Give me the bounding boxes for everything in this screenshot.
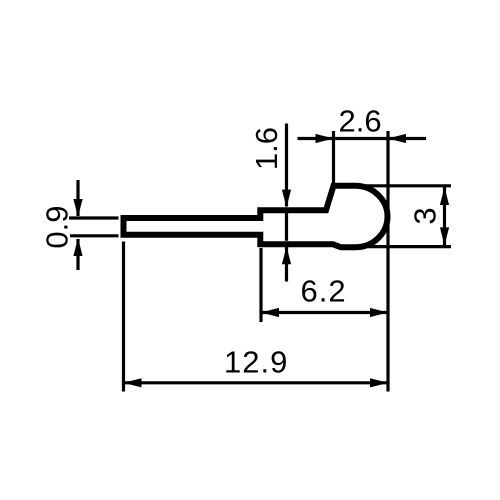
svg-text:3: 3 <box>408 207 443 224</box>
svg-text:6.2: 6.2 <box>301 274 347 309</box>
svg-text:2.6: 2.6 <box>339 104 382 139</box>
svg-text:12.9: 12.9 <box>224 345 288 380</box>
svg-text:1.6: 1.6 <box>249 127 284 170</box>
svg-text:0.9: 0.9 <box>40 205 75 248</box>
